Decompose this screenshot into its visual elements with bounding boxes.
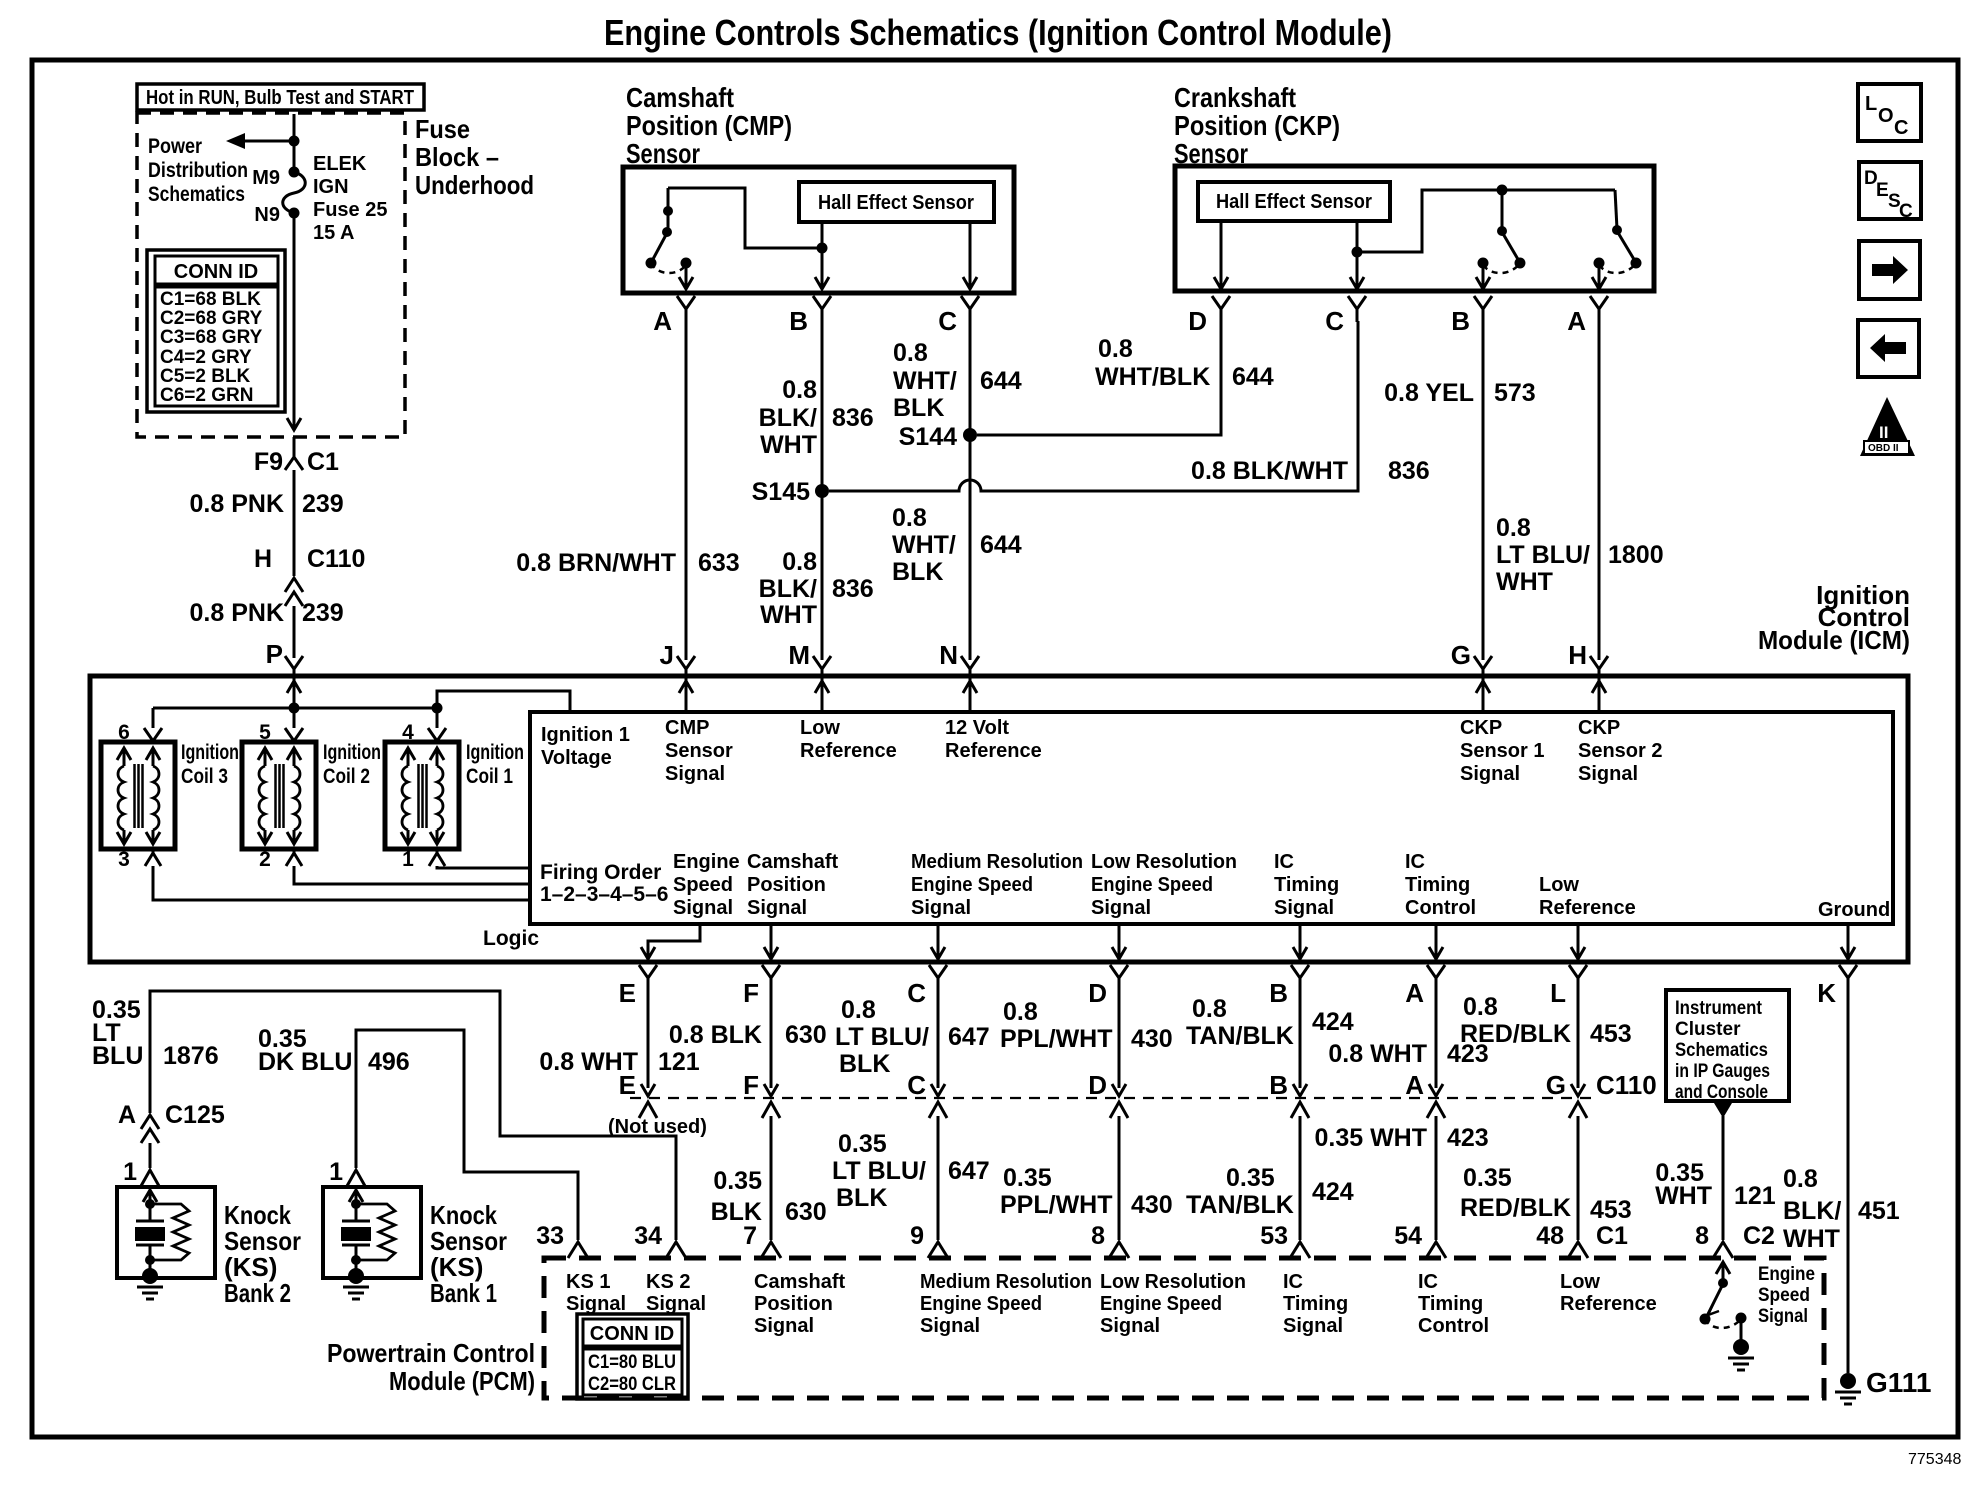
- svg-text:Signal: Signal: [1100, 1315, 1160, 1337]
- svg-text:C5=2 BLK: C5=2 BLK: [160, 366, 251, 387]
- svg-text:0.8 PNK: 0.8 PNK: [190, 490, 284, 518]
- svg-text:Speed: Speed: [673, 874, 733, 896]
- svg-text:453: 453: [1590, 1020, 1632, 1048]
- svg-text:RED/BLK: RED/BLK: [1460, 1194, 1571, 1222]
- svg-text:Sensor: Sensor: [626, 138, 700, 169]
- svg-text:C2=80 CLR: C2=80 CLR: [588, 1374, 676, 1395]
- svg-text:Bank 1: Bank 1: [430, 1278, 497, 1308]
- svg-text:Low: Low: [1560, 1271, 1600, 1293]
- svg-text:J: J: [660, 640, 674, 670]
- PCM pin 33 connector: [536, 1222, 588, 1258]
- wire CMP C to ICM N, circuit 644 WHT/BLK: [892, 321, 1022, 660]
- PCM pin 34 connector: [634, 1222, 686, 1258]
- svg-text:0.35: 0.35: [838, 1130, 887, 1158]
- svg-text:F9: F9: [254, 448, 283, 476]
- KS 1 signal label: [566, 1271, 626, 1315]
- svg-text:Signal: Signal: [1091, 897, 1151, 919]
- 12 volt reference label: [945, 717, 1042, 762]
- svg-text:121: 121: [658, 1048, 700, 1076]
- svg-text:B: B: [1269, 1070, 1288, 1100]
- svg-text:Reference: Reference: [1560, 1293, 1657, 1315]
- svg-text:496: 496: [368, 1048, 410, 1076]
- svg-text:ELEK: ELEK: [313, 153, 367, 175]
- svg-text:E: E: [619, 978, 636, 1008]
- svg-text:Coil 2: Coil 2: [323, 765, 370, 788]
- svg-text:Powertrain Control: Powertrain Control: [327, 1338, 535, 1368]
- svg-text:C125: C125: [165, 1101, 225, 1129]
- svg-text:D: D: [1088, 978, 1107, 1008]
- svg-text:KS 1: KS 1: [566, 1271, 610, 1293]
- svg-text:C: C: [907, 1070, 926, 1100]
- svg-text:LT BLU/: LT BLU/: [835, 1023, 929, 1051]
- svg-text:Medium Resolution: Medium Resolution: [911, 851, 1083, 873]
- svg-text:IC: IC: [1405, 851, 1425, 873]
- CKP pin D connector: [1188, 296, 1230, 336]
- KS 2 signal label: [646, 1271, 706, 1315]
- connector row C110 pin D: [1088, 1070, 1128, 1118]
- svg-text:B: B: [1451, 306, 1470, 336]
- knock sensor bank 1 label: [430, 1200, 507, 1308]
- svg-text:TAN/BLK: TAN/BLK: [1186, 1022, 1294, 1050]
- svg-text:1: 1: [123, 1158, 137, 1186]
- fuse block label: [415, 114, 534, 200]
- knock sensor bank 2 wire circuit 1876 LT BLU: [92, 991, 676, 1240]
- svg-text:C110: C110: [307, 545, 365, 573]
- ICM pin J connector: [660, 640, 695, 682]
- svg-text:Position (CKP): Position (CKP): [1174, 110, 1340, 141]
- svg-text:Control: Control: [1405, 897, 1476, 919]
- CKP pickup switch 2: [1592, 190, 1642, 289]
- svg-text:Speed: Speed: [1758, 1285, 1810, 1306]
- PCM pin 7 connector: [743, 1222, 781, 1258]
- svg-text:WHT/: WHT/: [892, 531, 956, 559]
- svg-text:C: C: [1325, 306, 1344, 336]
- svg-text:CONN ID: CONN ID: [590, 1323, 674, 1345]
- hot in run label box: [137, 84, 424, 110]
- CMP pin A connector: [653, 296, 695, 336]
- svg-text:Timing: Timing: [1418, 1293, 1483, 1315]
- wire 239 PNK upper segment: [190, 470, 344, 576]
- arrow to power distribution: [226, 133, 300, 149]
- wire C circuit 647 LT BLU/BLK lower: [832, 1116, 990, 1240]
- splice S145: [752, 478, 829, 506]
- connector row C110 pin A: [1405, 1070, 1445, 1118]
- svg-text:Hall Effect Sensor: Hall Effect Sensor: [818, 192, 974, 214]
- svg-text:424: 424: [1312, 1178, 1354, 1206]
- svg-text:0.35: 0.35: [1226, 1164, 1275, 1192]
- svg-text:A: A: [1405, 1070, 1424, 1100]
- svg-text:Timing: Timing: [1274, 874, 1339, 896]
- svg-text:Low Resolution: Low Resolution: [1100, 1271, 1246, 1293]
- CMP sensor label: [626, 82, 792, 169]
- low reference label (PCM): [1560, 1271, 1657, 1315]
- svg-text:H: H: [254, 545, 272, 573]
- svg-text:WHT/: WHT/: [893, 367, 957, 395]
- svg-text:Logic: Logic: [483, 927, 539, 950]
- knock sensor KS bank 2: [117, 1187, 215, 1299]
- svg-text:Ignition: Ignition: [323, 741, 381, 764]
- coil 2 feed connector: [285, 708, 303, 741]
- low resolution label (PCM): [1100, 1271, 1246, 1337]
- svg-text:Schematics: Schematics: [1675, 1040, 1768, 1061]
- CMP sensor signal label: [665, 717, 733, 785]
- splice S144: [899, 423, 977, 451]
- knock sensor bank 2 pin 1 connector: [123, 1158, 159, 1186]
- PCM pin 54 connector: [1394, 1222, 1446, 1258]
- svg-text:0.8: 0.8: [1496, 514, 1531, 542]
- svg-text:KS 2: KS 2: [646, 1271, 690, 1293]
- svg-text:BLK/: BLK/: [759, 575, 817, 603]
- wire CMP B to ICM M, circuit 836 BLK/WHT: [759, 321, 874, 660]
- CKP sensor 1 signal label: [1460, 717, 1544, 785]
- svg-text:LT BLU/: LT BLU/: [832, 1157, 926, 1185]
- svg-text:Camshaft: Camshaft: [747, 851, 838, 873]
- svg-text:0.35 WHT: 0.35 WHT: [1314, 1124, 1427, 1152]
- svg-text:12 Volt: 12 Volt: [945, 717, 1009, 739]
- svg-text:B: B: [1269, 978, 1288, 1008]
- svg-text:0.8: 0.8: [1098, 335, 1133, 363]
- wire hall (CMP) to pin B: [815, 222, 829, 289]
- low reference label (top): [800, 717, 897, 762]
- svg-text:OBD II: OBD II: [1868, 443, 1899, 454]
- svg-text:Medium Resolution: Medium Resolution: [920, 1271, 1092, 1293]
- svg-text:Camshaft: Camshaft: [754, 1271, 845, 1293]
- svg-text:BLK: BLK: [839, 1050, 890, 1078]
- ICM internal arrow IC timing control: [1429, 924, 1443, 959]
- medium resolution engine speed label (ICM): [911, 851, 1083, 919]
- svg-text:Signal: Signal: [1578, 763, 1638, 785]
- PCM pin 48 C1 connector: [1536, 1222, 1628, 1258]
- ICM pin B connector: [1269, 965, 1309, 1008]
- svg-text:BLK: BLK: [892, 558, 943, 586]
- coil 1 feed connector: [428, 708, 446, 741]
- wire CKP A to ICM H, circuit 1800 LT BLU/WHT: [1496, 321, 1664, 660]
- svg-text:A: A: [653, 306, 672, 336]
- svg-text:Position: Position: [754, 1293, 833, 1315]
- medium resolution label (PCM): [920, 1271, 1092, 1337]
- svg-text:C3=68 GRY: C3=68 GRY: [160, 327, 263, 348]
- knock sensor bank 1 pin 1 connector: [329, 1158, 365, 1186]
- svg-text:IC: IC: [1418, 1271, 1438, 1293]
- svg-text:Ground: Ground: [1818, 899, 1890, 921]
- svg-text:Signal: Signal: [566, 1293, 626, 1315]
- svg-text:BLK/: BLK/: [759, 404, 817, 432]
- svg-text:E: E: [619, 1070, 636, 1100]
- connector row C110 pin C: [907, 1070, 947, 1118]
- svg-text:Signal: Signal: [911, 897, 971, 919]
- svg-text:Low: Low: [800, 717, 840, 739]
- ICM internal arrow ground: [1841, 924, 1855, 959]
- CKP pin A connector: [1567, 296, 1608, 336]
- CKP pin B connector: [1451, 296, 1492, 336]
- svg-text:PPL/WHT: PPL/WHT: [1000, 1191, 1113, 1219]
- svg-text:9: 9: [910, 1222, 924, 1250]
- wire A circuit 423 WHT lower: [1314, 1116, 1488, 1240]
- wire ignition feed into fuse: [293, 114, 296, 172]
- svg-text:IGN: IGN: [313, 176, 349, 198]
- CMP sensor box: [623, 167, 1014, 293]
- svg-text:Signal: Signal: [920, 1315, 980, 1337]
- svg-text:Distribution: Distribution: [148, 159, 248, 182]
- wire instrument cluster circuit 121 WHT: [1655, 1103, 1776, 1240]
- svg-text:0.8 WHT: 0.8 WHT: [1328, 1040, 1427, 1068]
- wire C circuit 647 LT BLU/BLK upper: [835, 991, 990, 1096]
- PCM pin 8 C2 connector: [1695, 1222, 1775, 1258]
- svg-text:A: A: [1405, 978, 1424, 1008]
- ICM outer box: [90, 676, 1908, 962]
- svg-text:Coil 1: Coil 1: [466, 765, 513, 788]
- ICM internal arrow pin G: [1476, 681, 1490, 712]
- ICM label: [1758, 580, 1910, 655]
- coil 2 low terminal connector: [286, 849, 302, 866]
- svg-text:630: 630: [785, 1021, 827, 1049]
- svg-text:836: 836: [1388, 457, 1430, 485]
- ICM internal arrow low resolution: [1112, 924, 1126, 959]
- power distribution schematics label: [148, 135, 248, 206]
- ICM internal arrow pin J: [679, 681, 693, 712]
- CMP pickup switch: [646, 188, 821, 289]
- ICM pin H connector: [1568, 640, 1608, 682]
- svg-text:Low: Low: [1539, 874, 1579, 896]
- svg-text:0.35: 0.35: [1463, 1164, 1512, 1192]
- svg-text:33: 33: [536, 1222, 564, 1250]
- svg-text:D: D: [1188, 306, 1207, 336]
- wire coil 1 to logic: [437, 866, 530, 868]
- ICM logic box: [530, 712, 1893, 924]
- DESC button: [1859, 162, 1921, 222]
- coil 1 low terminal connector: [429, 849, 445, 866]
- wire G circuit 453 RED/BLK lower: [1460, 1116, 1632, 1240]
- svg-text:1: 1: [402, 848, 414, 871]
- svg-text:Engine: Engine: [673, 851, 740, 873]
- svg-text:Signal: Signal: [747, 897, 807, 919]
- svg-text:0.8: 0.8: [841, 996, 876, 1024]
- fuse F25 symbol: [283, 167, 306, 219]
- wire 239 PNK lower segment: [190, 599, 344, 658]
- wire D circuit 430 PPL/WHT lower: [1000, 1116, 1173, 1240]
- svg-text:P: P: [266, 639, 283, 669]
- LOC button: [1858, 84, 1921, 141]
- wire D circuit 430 PPL/WHT upper: [1000, 991, 1173, 1096]
- svg-text:in IP Gauges: in IP Gauges: [1675, 1061, 1770, 1082]
- svg-text:423: 423: [1447, 1124, 1489, 1152]
- svg-text:1–2–3–4–5–6: 1–2–3–4–5–6: [540, 883, 668, 906]
- svg-text:Camshaft: Camshaft: [626, 82, 734, 113]
- svg-text:K: K: [1817, 978, 1836, 1008]
- connector row C110 pin E: [619, 1070, 657, 1118]
- ICM pin L connector: [1550, 965, 1587, 1008]
- wire CKP C down to splice S145, circuit 836: [829, 321, 1430, 491]
- svg-text:Low Resolution: Low Resolution: [1091, 851, 1237, 873]
- svg-text:C2=68 GRY: C2=68 GRY: [160, 308, 263, 329]
- CONN ID table (fuse block): [147, 250, 285, 412]
- wire fuse output down to fuse block edge: [287, 213, 301, 430]
- svg-text:53: 53: [1260, 1222, 1288, 1250]
- wire B circuit 424 TAN/BLK upper: [1186, 991, 1354, 1096]
- wire hall (CKP) to pin D: [1214, 221, 1228, 289]
- svg-text:5: 5: [259, 721, 271, 744]
- svg-text:Reference: Reference: [800, 740, 897, 762]
- wire hall (CKP) to pin C and switch feed: [1350, 190, 1615, 289]
- wire coil 3 to logic: [153, 866, 530, 900]
- svg-text:Cluster: Cluster: [1675, 1019, 1741, 1040]
- ignition coil 1: [385, 721, 524, 871]
- svg-text:BLU: BLU: [92, 1042, 143, 1070]
- svg-text:633: 633: [698, 549, 740, 577]
- ICM internal arrow medium resolution: [931, 924, 945, 959]
- wire hall (CMP) to pin C: [963, 222, 977, 289]
- svg-text:3: 3: [118, 848, 130, 871]
- svg-text:G: G: [1451, 640, 1471, 670]
- svg-text:G111: G111: [1866, 1367, 1931, 1398]
- IC timing signal label (ICM): [1274, 851, 1339, 919]
- svg-text:Reference: Reference: [1539, 897, 1636, 919]
- svg-text:424: 424: [1312, 1008, 1354, 1036]
- svg-text:Position (CMP): Position (CMP): [626, 110, 792, 141]
- svg-text:Position: Position: [747, 874, 826, 896]
- svg-text:0.8 PNK: 0.8 PNK: [190, 599, 284, 627]
- svg-text:836: 836: [832, 575, 874, 603]
- svg-text:E: E: [1876, 180, 1889, 201]
- svg-text:4: 4: [402, 721, 414, 744]
- svg-text:0.8 YEL: 0.8 YEL: [1384, 379, 1474, 407]
- svg-text:Engine: Engine: [1758, 1264, 1815, 1285]
- wire A circuit 423 WHT upper: [1328, 991, 1488, 1096]
- svg-text:0.8 BRN/WHT: 0.8 BRN/WHT: [516, 549, 676, 577]
- svg-text:Ignition: Ignition: [466, 741, 524, 764]
- fuse ELEK IGN label: [313, 153, 387, 244]
- svg-text:Schematics: Schematics: [148, 183, 245, 206]
- svg-text:Fuse 25: Fuse 25: [313, 199, 387, 221]
- svg-text:647: 647: [948, 1023, 990, 1051]
- connector A C125: [118, 1101, 225, 1168]
- svg-text:WHT: WHT: [760, 601, 817, 629]
- firing order label: [540, 861, 668, 906]
- wire coil 2 to logic: [294, 866, 530, 884]
- ICM pin M connector: [788, 640, 831, 682]
- svg-text:A: A: [1567, 306, 1586, 336]
- CKP sensor 2 signal label: [1578, 717, 1662, 785]
- wire K circuit 451 BLK/WHT to ground: [1783, 991, 1900, 1373]
- knock sensor bank 2 label: [224, 1200, 301, 1308]
- svg-text:430: 430: [1131, 1025, 1173, 1053]
- svg-text:453: 453: [1590, 1196, 1632, 1224]
- connector C110 pin G: [1546, 1070, 1657, 1118]
- camshaft position signal label (ICM): [747, 851, 838, 919]
- svg-text:239: 239: [302, 599, 344, 627]
- coil 3 feed connector: [144, 708, 162, 741]
- svg-text:N9: N9: [254, 204, 280, 226]
- svg-text:F: F: [743, 978, 759, 1008]
- svg-text:TAN/BLK: TAN/BLK: [1186, 1191, 1294, 1219]
- svg-text:8: 8: [1091, 1222, 1105, 1250]
- CKP sensor box: [1175, 166, 1654, 291]
- svg-text:Signal: Signal: [1274, 897, 1334, 919]
- svg-text:Signal: Signal: [665, 763, 725, 785]
- svg-text:Ignition: Ignition: [181, 741, 239, 764]
- IC timing signal label (PCM): [1283, 1271, 1348, 1337]
- svg-text:C1: C1: [307, 448, 339, 476]
- svg-text:Sensor 2: Sensor 2: [1578, 740, 1662, 762]
- svg-text:S145: S145: [752, 478, 810, 506]
- svg-text:Instrument: Instrument: [1675, 998, 1763, 1019]
- svg-text:Fuse: Fuse: [415, 114, 470, 144]
- wire L circuit 453 RED/BLK upper: [1460, 991, 1632, 1096]
- camshaft position signal label (PCM): [754, 1271, 845, 1337]
- ICM pin D connector: [1088, 965, 1128, 1008]
- knock sensor KS bank 1: [323, 1187, 421, 1299]
- svg-text:0.35: 0.35: [713, 1167, 762, 1195]
- svg-text:L: L: [1865, 93, 1877, 115]
- svg-text:C110: C110: [1596, 1070, 1657, 1100]
- svg-text:Coil 3: Coil 3: [181, 765, 228, 788]
- svg-text:O: O: [1878, 105, 1894, 127]
- svg-text:H: H: [1568, 640, 1587, 670]
- fuse block underhood dashed box: [137, 113, 405, 437]
- svg-text:C: C: [938, 306, 957, 336]
- svg-text:0.8: 0.8: [1783, 1165, 1818, 1193]
- ICM internal arrow pin M: [815, 681, 829, 712]
- svg-text:C1=80 BLU: C1=80 BLU: [588, 1352, 676, 1373]
- svg-text:L: L: [1550, 978, 1566, 1008]
- ignition coil 2: [242, 721, 381, 871]
- svg-text:34: 34: [634, 1222, 662, 1250]
- svg-text:Engine Controls Schematics (Ig: Engine Controls Schematics (Ignition Con…: [604, 12, 1392, 53]
- svg-text:F: F: [743, 1070, 759, 1100]
- svg-text:RED/BLK: RED/BLK: [1460, 1020, 1571, 1048]
- svg-text:C2: C2: [1743, 1222, 1775, 1250]
- wire E circuit 121 WHT: [539, 991, 699, 1096]
- svg-text:836: 836: [832, 404, 874, 432]
- svg-text:CKP: CKP: [1460, 717, 1502, 739]
- svg-text:0.8: 0.8: [1192, 995, 1227, 1023]
- instrument cluster reference box: [1666, 990, 1789, 1103]
- svg-text:Timing: Timing: [1283, 1293, 1348, 1315]
- ICM internal arrow IC timing signal: [1293, 924, 1307, 959]
- ground G111: [1835, 1367, 1931, 1404]
- svg-text:and Console: and Console: [1675, 1082, 1768, 1103]
- svg-text:WHT: WHT: [1496, 568, 1553, 596]
- svg-text:C6=2 GRN: C6=2 GRN: [160, 385, 253, 406]
- ICM pin G connector: [1451, 640, 1492, 682]
- svg-text:Engine Speed: Engine Speed: [1100, 1293, 1222, 1315]
- svg-text:C1: C1: [1596, 1222, 1628, 1250]
- svg-text:Hot in RUN, Bulb Test and STAR: Hot in RUN, Bulb Test and START: [146, 87, 414, 109]
- svg-text:Hall Effect Sensor: Hall Effect Sensor: [1216, 191, 1372, 213]
- ignition coil 3: [101, 721, 239, 871]
- svg-text:0.8 BLK: 0.8 BLK: [669, 1021, 762, 1049]
- svg-text:Module (ICM): Module (ICM): [1758, 625, 1910, 655]
- svg-text:644: 644: [1232, 363, 1274, 391]
- svg-text:B: B: [789, 306, 808, 336]
- svg-text:D: D: [1088, 1070, 1107, 1100]
- svg-text:Underhood: Underhood: [415, 170, 534, 200]
- svg-text:C: C: [1894, 117, 1908, 139]
- engine speed signal label (PCM): [1758, 1264, 1815, 1327]
- ICM pin N connector: [939, 640, 979, 682]
- svg-text:54: 54: [1394, 1222, 1422, 1250]
- svg-text:C1=68 BLK: C1=68 BLK: [160, 289, 261, 310]
- svg-text:0.8: 0.8: [893, 339, 928, 367]
- svg-text:451: 451: [1858, 1197, 1900, 1225]
- svg-text:2: 2: [259, 848, 271, 871]
- wire CKP B to ICM G, circuit 573 YEL: [1384, 321, 1536, 660]
- svg-text:0.8 BLK/WHT: 0.8 BLK/WHT: [1191, 457, 1348, 485]
- svg-text:G: G: [1546, 1070, 1566, 1100]
- svg-text:Crankshaft: Crankshaft: [1174, 82, 1296, 113]
- svg-text:WHT: WHT: [760, 431, 817, 459]
- svg-text:S144: S144: [899, 423, 957, 451]
